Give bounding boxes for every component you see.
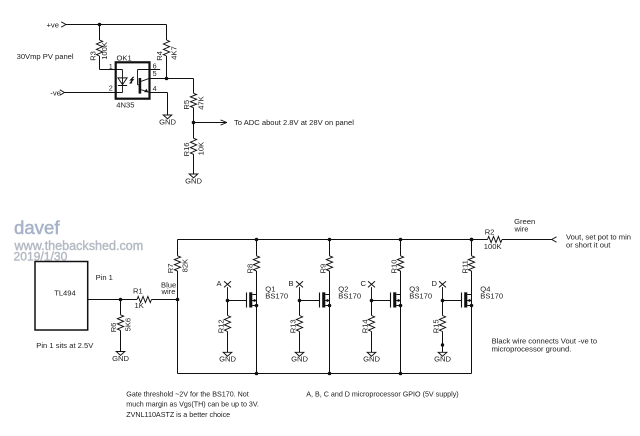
svg-text:GND: GND [185, 176, 202, 185]
svg-text:wire: wire [514, 224, 529, 233]
svg-text:microprocessor ground.: microprocessor ground. [492, 345, 572, 354]
svg-text:30Vmp PV panel: 30Vmp PV panel [17, 52, 74, 61]
svg-text:1: 1 [109, 62, 113, 71]
svg-text:-ve: -ve [50, 89, 61, 98]
svg-text:R5: R5 [182, 100, 191, 110]
svg-text:davef: davef [14, 217, 60, 238]
svg-text:Gate threshold ~2V for the BS1: Gate threshold ~2V for the BS170. Not [126, 390, 248, 398]
svg-text:wire: wire [161, 287, 176, 296]
svg-text:R1: R1 [133, 287, 143, 296]
svg-text:R10: R10 [389, 260, 398, 274]
svg-text:BS170: BS170 [265, 291, 288, 300]
svg-text:D: D [432, 279, 438, 288]
svg-text:R8: R8 [245, 264, 254, 274]
svg-text:R2: R2 [485, 228, 495, 237]
svg-text:+ve: +ve [47, 21, 59, 30]
svg-text:TL494: TL494 [54, 288, 76, 297]
svg-text:4N35: 4N35 [116, 101, 134, 110]
svg-text:B: B [289, 279, 294, 288]
svg-text:GND: GND [363, 355, 380, 364]
svg-text:100K: 100K [100, 42, 109, 60]
svg-text:C: C [361, 279, 367, 288]
svg-text:GND: GND [219, 355, 236, 364]
svg-text:GND: GND [291, 355, 308, 364]
svg-text:4: 4 [153, 84, 157, 93]
svg-text:ZVNL110ASTZ is a better choice: ZVNL110ASTZ is a better choice [126, 411, 230, 419]
svg-text:R11: R11 [460, 260, 469, 273]
svg-text:10K: 10K [197, 142, 206, 156]
svg-text:R12: R12 [216, 319, 225, 333]
svg-text:5K6: 5K6 [124, 318, 133, 332]
svg-text:4K7: 4K7 [170, 46, 179, 60]
svg-text:To ADC about 2.8V at 28V on pa: To ADC about 2.8V at 28V on panel [234, 118, 354, 127]
svg-text:82K: 82K [181, 259, 190, 273]
svg-text:R4: R4 [155, 51, 164, 61]
svg-text:R3: R3 [89, 51, 98, 61]
svg-text:5: 5 [153, 69, 157, 78]
svg-text:GND: GND [112, 354, 129, 363]
svg-text:GND: GND [159, 117, 176, 126]
svg-text:or short it out: or short it out [566, 240, 611, 249]
svg-text:BS170: BS170 [480, 291, 503, 300]
svg-text:Pin 1 sits at 2.5V: Pin 1 sits at 2.5V [36, 341, 94, 350]
svg-text:1K: 1K [135, 301, 144, 310]
svg-text:R6: R6 [109, 323, 118, 333]
svg-text:much margin as Vgs(TH) can be: much margin as Vgs(TH) can be up to 3V. [126, 401, 259, 409]
svg-text:100K: 100K [484, 242, 502, 251]
svg-text:47K: 47K [197, 96, 206, 110]
svg-text:OK1: OK1 [117, 53, 132, 62]
svg-text:R13: R13 [288, 319, 297, 333]
svg-text:GND: GND [434, 355, 451, 364]
svg-text:R9: R9 [318, 264, 327, 274]
svg-text:BS170: BS170 [409, 291, 432, 300]
svg-text:R16: R16 [182, 142, 191, 156]
svg-text:R7: R7 [166, 263, 175, 273]
svg-text:A, B, C and D microprocessor G: A, B, C and D microprocessor GPIO (5V su… [306, 390, 458, 398]
svg-text:R15: R15 [431, 319, 440, 333]
svg-text:Pin 1: Pin 1 [96, 273, 113, 282]
svg-text:BS170: BS170 [338, 291, 361, 300]
svg-text:R14: R14 [360, 319, 369, 333]
svg-text:2: 2 [109, 84, 113, 93]
